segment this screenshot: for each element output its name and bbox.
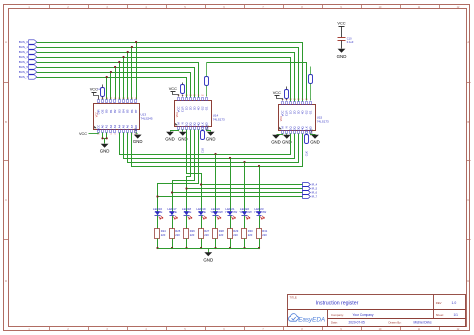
svg-text:74LS245: 74LS245 — [141, 116, 153, 120]
svg-text:GND: GND — [271, 139, 281, 144]
svg-text:GND: GND — [203, 258, 213, 263]
wire register out bit1 (U4-LED2) — [187, 130, 191, 212]
svg-text:GND: GND — [337, 54, 347, 59]
svg-text:B: B — [5, 120, 7, 124]
wire to flag IR_4 / junction — [200, 183, 303, 185]
resistor CLR pullup U4 — [181, 83, 185, 97]
capacitor C10 0.1uF — [338, 36, 354, 44]
led LED20 YELLOW — [210, 207, 223, 219]
svg-text:GND: GND — [206, 136, 216, 141]
resistor R24 220 — [155, 229, 167, 239]
svg-text:A: A — [5, 40, 7, 44]
resistor U5 right — [309, 67, 313, 101]
svg-text:VCC: VCC — [280, 116, 283, 121]
net flag IR_4 — [303, 183, 318, 187]
svg-text:TITLE:: TITLE: — [290, 295, 298, 299]
svg-text:REV: REV — [436, 301, 442, 305]
wire bus_5 drop to U3 / junction — [114, 66, 116, 100]
svg-text:BUS_1: BUS_1 — [19, 45, 29, 49]
svg-text:EasyEDA: EasyEDA — [298, 316, 325, 323]
svg-text:VCC: VCC — [95, 112, 98, 117]
svg-text:74LS173: 74LS173 — [213, 117, 225, 121]
led LED18 BLUE — [182, 207, 192, 219]
svg-text:220: 220 — [190, 233, 195, 237]
ic U13 74LS245 — [94, 98, 153, 136]
svg-text:1.0: 1.0 — [452, 301, 457, 305]
wire led-resistor 1 — [157, 216, 159, 229]
ground U3 right — [133, 133, 143, 144]
svg-text:A: A — [467, 40, 469, 44]
resistor R28 220 — [213, 229, 225, 239]
wire LED ground rail — [158, 248, 260, 250]
wire led-resistor 2 — [172, 216, 174, 229]
svg-text:C: C — [5, 198, 7, 202]
resistor R26 220 — [184, 229, 196, 239]
resistor R25 220 — [170, 229, 181, 239]
ic U15 74LS173 — [279, 99, 330, 136]
svg-text:GND: GND — [135, 128, 138, 134]
net flag BUS_1 — [19, 45, 37, 49]
wire to flag IR_7 / junction — [156, 195, 302, 197]
svg-text:BUS_2: BUS_2 — [19, 50, 29, 54]
resistor CLK U4 — [201, 130, 205, 154]
svg-text:C10: C10 — [347, 36, 352, 40]
resistor CLK U5 — [305, 134, 309, 157]
svg-text:GND: GND — [133, 139, 143, 144]
svg-text:BUS_6: BUS_6 — [19, 70, 29, 74]
wire clock line — [207, 63, 307, 101]
svg-text:B: B — [467, 120, 469, 124]
ground U5 M pin — [271, 134, 282, 145]
wire to flag IR_5 / junction — [185, 187, 302, 189]
svg-text:IR_4: IR_4 — [312, 183, 318, 187]
wire bus_3 — [37, 58, 291, 102]
svg-text:VCC: VCC — [79, 132, 87, 136]
svg-text:VCC: VCC — [169, 86, 177, 91]
svg-text:R26: R26 — [190, 229, 195, 233]
ground U5 right — [310, 134, 320, 145]
svg-text:D: D — [467, 279, 469, 283]
svg-text:Instruction register: Instruction register — [316, 301, 359, 307]
wire bus_2 drop to U3 / junction — [127, 51, 129, 100]
wire resistor-rail 1 / junction — [156, 239, 158, 250]
svg-text:220: 220 — [161, 233, 166, 237]
net flag IR_6 — [303, 191, 318, 195]
svg-text:VCC: VCC — [176, 112, 179, 117]
led LED22 YELLOW — [239, 207, 252, 219]
net flag BUS_6 — [19, 70, 37, 74]
svg-text:GND: GND — [100, 148, 110, 153]
svg-text:IR_6: IR_6 — [312, 191, 318, 195]
wire register out bit2 (U4-LED3) — [173, 130, 195, 212]
wire resistor-rail 6 / junction — [229, 239, 231, 250]
svg-text:0.1uF: 0.1uF — [347, 40, 354, 44]
vcc C10 — [337, 21, 345, 38]
net flag IR_5 — [303, 187, 318, 191]
svg-text:Sheet:: Sheet: — [436, 313, 444, 317]
wire to flag IR_6 / junction — [171, 191, 303, 193]
wire led-resistor 6 — [230, 216, 232, 229]
led LED23 YELLOW — [254, 207, 267, 219]
wire bus_6 drop to U3 / junction — [110, 71, 112, 100]
svg-text:220: 220 — [175, 233, 180, 237]
svg-text:CLK: CLK — [201, 148, 205, 153]
resistor R30 220 — [242, 229, 254, 239]
svg-text:220: 220 — [262, 233, 267, 237]
svg-text:Your Company: Your Company — [353, 313, 374, 317]
svg-text:R29: R29 — [233, 229, 238, 233]
ground U4 N pin — [178, 130, 188, 142]
ground U4 M pin — [165, 130, 178, 142]
wire bus_1 — [37, 48, 299, 102]
svg-text:G1: G1 — [309, 110, 313, 114]
svg-text:220: 220 — [219, 233, 224, 237]
net flag IR_7 — [303, 195, 318, 199]
svg-text:GND: GND — [310, 139, 320, 144]
wire bus_4 — [37, 63, 199, 98]
wire led-resistor 3 — [186, 216, 188, 229]
wire resistor-rail 2 / junction — [171, 239, 173, 250]
wire resistor-rail 7 / junction — [243, 239, 245, 250]
svg-text:R30: R30 — [248, 229, 253, 233]
svg-text:BUS_0: BUS_0 — [19, 40, 29, 44]
led LED16 BLUE — [153, 207, 163, 219]
svg-text:D: D — [5, 279, 7, 283]
svg-text:Date:: Date: — [331, 321, 338, 325]
wire resistor-rail 8 / junction — [258, 239, 260, 250]
wire led-resistor 8 — [259, 216, 261, 229]
vcc U3 DIR — [90, 87, 99, 100]
svg-text:IR_5: IR_5 — [312, 187, 318, 191]
wire register out bit7 (U3-U5-LED8) — [132, 133, 303, 212]
wire led-resistor 7 — [244, 216, 246, 229]
wire resistor-rail 5 / junction — [214, 239, 216, 250]
net flag BUS_4 — [19, 60, 37, 64]
vcc U4 — [169, 86, 179, 97]
wire resistor-rail 4 / junction — [200, 239, 202, 250]
wire bus_0 drop to U3 / junction — [135, 41, 137, 100]
wire bus_3 drop to U3 / junction — [122, 56, 124, 100]
svg-text:1/1: 1/1 — [454, 313, 459, 317]
svg-text:220: 220 — [248, 233, 253, 237]
svg-text:BUS_5: BUS_5 — [19, 65, 29, 69]
svg-text:GND: GND — [311, 129, 314, 135]
svg-text:BUS_7: BUS_7 — [19, 75, 29, 79]
svg-text:GND: GND — [207, 125, 210, 131]
led LED19 BLUE — [196, 207, 206, 219]
svg-text:220: 220 — [204, 233, 209, 237]
svg-text:R28: R28 — [219, 229, 224, 233]
svg-text:Company:: Company: — [331, 313, 344, 317]
svg-text:BUS_3: BUS_3 — [19, 55, 29, 59]
resistor R31 220 — [257, 229, 268, 239]
svg-text:R24: R24 — [161, 229, 166, 233]
svg-text:220: 220 — [233, 233, 238, 237]
svg-text:BUS_4: BUS_4 — [19, 60, 29, 64]
wire bus_2 — [37, 53, 295, 102]
wire led-resistor 4 — [201, 216, 203, 229]
svg-text:74LS173: 74LS173 — [317, 119, 329, 123]
resistor R27 220 — [199, 229, 210, 239]
ground U4 right — [206, 130, 216, 142]
svg-text:GND: GND — [165, 136, 175, 141]
resistor U4 right — [205, 63, 209, 97]
svg-text:R31: R31 — [262, 229, 267, 233]
net flag BUS_0 — [19, 40, 37, 44]
wire register out bit3 (U4-LED4) — [158, 130, 199, 212]
net flag BUS_3 — [19, 55, 37, 59]
vcc U5 — [273, 90, 283, 101]
svg-text:VCC: VCC — [337, 21, 345, 26]
wire bus_1 drop to U3 / junction — [131, 46, 133, 100]
svg-text:B7: B7 — [134, 109, 138, 113]
wire register out bit0 (U4-LED1) — [187, 130, 202, 212]
svg-text:R25: R25 — [175, 229, 180, 233]
svg-text:R27: R27 — [204, 229, 209, 233]
wire register out bit4 (U3-U5-LED5) — [120, 133, 291, 212]
led LED21 YELLOW — [225, 207, 238, 219]
svg-text:IR_7: IR_7 — [312, 195, 318, 199]
wire bus_7 drop to U3 / junction — [106, 76, 108, 100]
led LED17 BLUE — [167, 207, 177, 219]
ground LED rail — [203, 249, 213, 263]
resistor R29 220 — [228, 229, 239, 239]
resistor CLR pullup U5 — [285, 87, 289, 101]
wire bus_4 drop to U3 / junction — [118, 61, 120, 100]
ground U3 pins / junctions — [100, 133, 110, 154]
wire register out bit6 (U3-U5-LED7) — [128, 133, 299, 212]
wire register out bit5 (U3-U5-LED6) — [124, 133, 295, 212]
net flag BUS_7 — [19, 75, 37, 79]
net flag BUS_5 — [19, 65, 37, 69]
wire led-resistor 5 — [215, 216, 217, 229]
resistor R16 pullup U3 — [97, 85, 104, 100]
svg-text:C: C — [467, 198, 469, 202]
svg-text:Michiel Dirks: Michiel Dirks — [414, 321, 432, 325]
ground C10 — [337, 41, 347, 59]
svg-text:2020-07-05: 2020-07-05 — [349, 321, 366, 325]
svg-text:VCC: VCC — [273, 90, 281, 95]
wire bus_5 — [37, 68, 195, 98]
ic U14 74LS173 — [175, 95, 226, 132]
wire bus_6 — [37, 73, 191, 98]
wire bus_0 — [37, 43, 303, 102]
net flag BUS_2 — [19, 50, 37, 54]
svg-text:G1: G1 — [205, 106, 209, 110]
wire bus_7 — [37, 78, 187, 98]
vcc label U3 bottom — [79, 132, 99, 136]
ground U5 N pin — [282, 134, 292, 145]
wire resistor-rail 3 / junction — [185, 239, 187, 250]
svg-text:Drawn By:: Drawn By: — [389, 321, 402, 325]
svg-text:CLK: CLK — [305, 151, 309, 156]
